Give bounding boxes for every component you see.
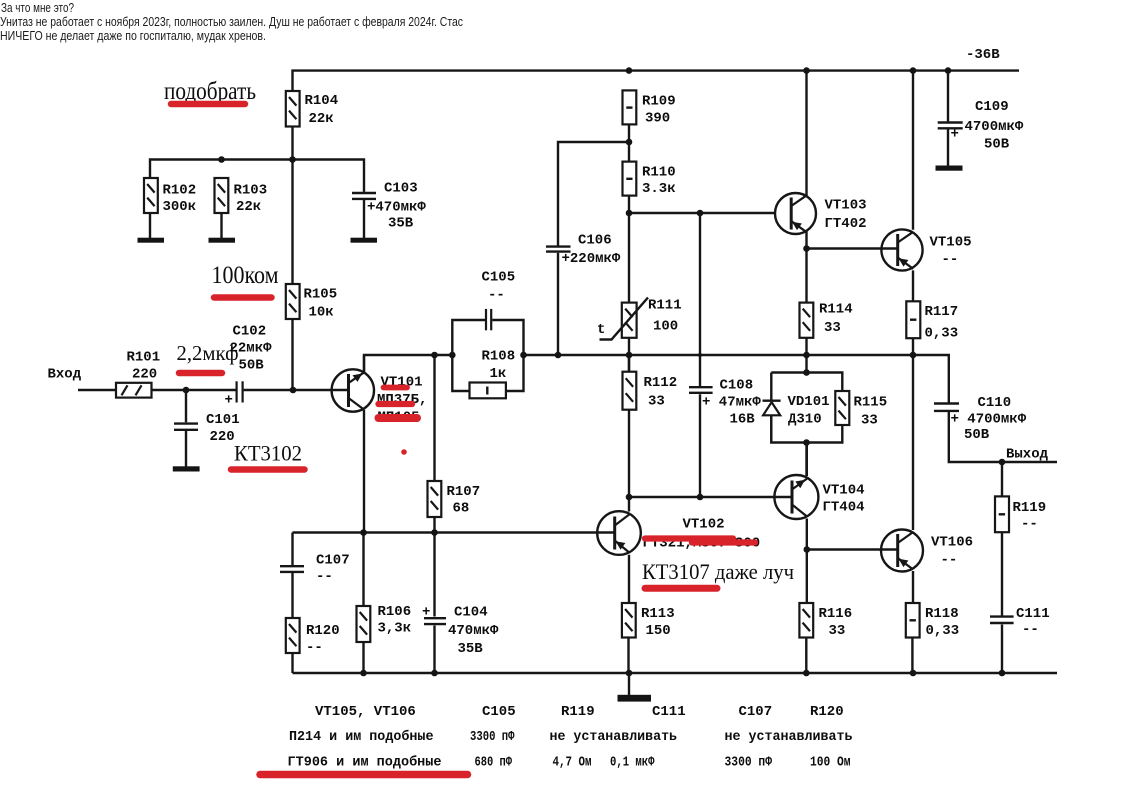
svg-text:Выход: Выход (1006, 447, 1049, 463)
wire C109 to ground (947, 130, 949, 167)
svg-text:100ком: 100ком (212, 262, 279, 289)
wire R119 top (1001, 462, 1003, 496)
wire VT102 base row y532 (293, 531, 615, 533)
svg-text:3300 пФ: 3300 пФ (725, 755, 773, 771)
wire C110 to output row (949, 412, 1057, 462)
svg-text:R111: R111 (648, 298, 682, 314)
svg-text:22к: 22к (236, 199, 261, 215)
svg-text:R102: R102 (163, 183, 197, 199)
resistor R109 (623, 90, 676, 126)
svg-text:R116: R116 (819, 606, 853, 622)
svg-text:R119: R119 (1013, 500, 1047, 516)
svg-text:НИЧЕГО не делает даже по госпи: НИЧЕГО не делает даже по госпиталю, муда… (0, 28, 266, 43)
wire loop bottom to VT104 (805, 443, 807, 476)
svg-text:1к: 1к (490, 366, 507, 382)
resistor R105 (286, 284, 337, 321)
capacitor C108 (689, 378, 761, 428)
transistor VT105 (881, 229, 971, 270)
wire R120 bottom to ground rail (291, 653, 293, 673)
resistor R115 (835, 391, 887, 429)
resistor R120 (286, 618, 340, 656)
wire R119 bottom to C111 (1001, 532, 1003, 616)
svg-text:не устанавливать: не устанавливать (725, 729, 853, 745)
ground R103 (209, 238, 236, 243)
node bias row junctions (218, 156, 225, 163)
node VT104 base row (626, 494, 633, 501)
svg-text:R115: R115 (854, 395, 888, 411)
wire input row y390 (78, 389, 116, 391)
capacitor C107 (280, 553, 350, 586)
svg-text:R105: R105 (304, 287, 338, 303)
capacitor C105 with R108 loop (452, 270, 523, 392)
wire VT104 collector (806, 443, 808, 476)
svg-text:+ 47мкФ: + 47мкФ (702, 395, 761, 411)
svg-text:50В: 50В (964, 427, 990, 443)
svg-text:R113: R113 (641, 606, 675, 622)
resistor R119 (995, 496, 1046, 532)
svg-text:VT104: VT104 (823, 483, 865, 499)
svg-text:+ 4700мкФ: + 4700мкФ (951, 412, 1027, 428)
svg-text:390: 390 (645, 111, 670, 127)
wire VT101 collector up to rail (363, 355, 365, 372)
svg-text:R120: R120 (306, 623, 340, 639)
svg-text:R120: R120 (810, 704, 844, 720)
capacitor C110 (934, 395, 1027, 443)
svg-text:VT105: VT105 (930, 235, 972, 251)
wire R111 bottom to rail (628, 338, 630, 372)
svg-text:22к: 22к (309, 111, 334, 127)
svg-text:КТ3107 даже луч: КТ3107 даже луч (642, 559, 794, 584)
capacitor C106 (546, 233, 621, 268)
svg-text:470мкФ: 470мкФ (448, 623, 499, 639)
resistor R112 (623, 372, 678, 410)
svg-text:За что мне это?: За что мне это? (1, 0, 74, 15)
svg-text:C110: C110 (978, 395, 1012, 411)
wire R116 bottom (805, 638, 807, 674)
svg-text:R108: R108 (482, 349, 516, 365)
svg-text:33: 33 (861, 413, 878, 429)
svg-text:R114: R114 (819, 302, 853, 318)
svg-text:Д310: Д310 (788, 412, 822, 428)
ground main (618, 695, 652, 702)
wire R113 bottom (627, 638, 629, 674)
svg-text:--: -- (1021, 517, 1038, 533)
wire R106 bottom (362, 642, 364, 673)
wire bottom ground rail (293, 672, 1058, 674)
wire bias row y159 R102/R103/C103 (150, 160, 364, 192)
wire R106 top (362, 533, 364, 607)
svg-text:4,7 Ом: 4,7 Ом (553, 755, 592, 771)
svg-text:+: + (422, 605, 430, 621)
svg-text:C105: C105 (482, 704, 516, 720)
resistor R116 (799, 603, 852, 639)
svg-text:R104: R104 (305, 93, 339, 109)
resistor R117 (906, 301, 958, 341)
resistor R106 (357, 604, 412, 642)
svg-text:3300 пФ: 3300 пФ (470, 729, 515, 745)
wire R105 bottom to input node (291, 319, 293, 391)
resistor R110 (623, 162, 676, 197)
resistor R107 (428, 481, 481, 517)
wire VT104 base row y497 (629, 496, 792, 498)
diode VD101 (763, 394, 830, 443)
wire C105 junction column down to C108 (699, 213, 701, 386)
svg-text:C106: C106 (578, 233, 612, 249)
node VT103 base row (626, 210, 633, 217)
wire R110 junction down to R111 (628, 213, 630, 303)
capacitor C102 (225, 324, 273, 409)
svg-text:R118: R118 (925, 606, 959, 622)
svg-text:33: 33 (829, 623, 846, 639)
svg-text:C107: C107 (316, 553, 350, 569)
svg-text:ГТ404: ГТ404 (823, 500, 865, 516)
svg-text:VT103: VT103 (825, 198, 867, 214)
svg-text:150: 150 (646, 623, 671, 639)
wire VT103 collector to top rail (805, 71, 807, 196)
svg-text:ГТ906 и им подобные: ГТ906 и им подобные (288, 755, 442, 771)
svg-text:--: -- (306, 640, 323, 656)
svg-text:0,33: 0,33 (925, 326, 959, 342)
svg-text:C109: C109 (975, 99, 1009, 115)
svg-text:R106: R106 (378, 604, 412, 620)
svg-text:--: -- (1022, 622, 1039, 638)
svg-text:33: 33 (824, 320, 841, 336)
wire top -36V power rail (293, 71, 1020, 91)
wire C106 top branch (558, 142, 629, 246)
wire VT103 base row y213 (629, 196, 775, 213)
transistor VT103 (775, 193, 867, 234)
wire VD101 loop (771, 373, 842, 443)
capacitor C103 (352, 181, 426, 239)
transistor VT106 (881, 530, 973, 572)
capacitor C101 (174, 412, 240, 445)
node VT105 base link (803, 245, 810, 252)
svg-text:C107: C107 (739, 704, 773, 720)
wire R107 top (433, 355, 435, 481)
capacitor C104 (422, 605, 499, 658)
wire VT105 collector to top rail (912, 71, 914, 230)
svg-text:220: 220 (132, 367, 157, 383)
wire C108 bottom to VT104 base row (699, 394, 701, 497)
wire VT101 emitter down to VT102 base row (363, 410, 365, 533)
wire R112 top (628, 355, 630, 372)
wire C111 bottom (1001, 625, 1003, 674)
svg-text:R107: R107 (447, 484, 481, 500)
wire R101 to C102 (152, 389, 236, 391)
wire VT103 emitter to R114 (805, 232, 807, 303)
wire VT106 base row y549 (807, 548, 898, 550)
svg-text:R119: R119 (561, 704, 595, 720)
wire VT106 emitter to R118 (912, 571, 914, 603)
svg-text:C105: C105 (482, 270, 516, 286)
node ground rail junctions (360, 670, 367, 677)
GROUND SYMBOLS (138, 166, 963, 702)
annotation strike VT101 (384, 385, 408, 391)
wire C102 to VT101 base (244, 389, 349, 391)
svg-text:--: -- (941, 553, 958, 569)
ground R102 (138, 238, 165, 243)
svg-text:R117: R117 (925, 304, 959, 320)
svg-text:R109: R109 (642, 94, 676, 110)
annotation long red underline bottom (260, 771, 468, 779)
svg-text:35В: 35В (388, 216, 414, 232)
svg-text:+: + (951, 127, 959, 143)
wire R104 bottom to R105 top (291, 127, 293, 285)
wire VT106 collector up to rail (912, 355, 914, 530)
svg-text:100: 100 (653, 319, 678, 335)
wire R107 bottom to C104 (433, 517, 435, 617)
svg-text:3.3к: 3.3к (642, 181, 676, 197)
wire C101 branch (185, 390, 187, 422)
transistor VT104 (774, 475, 864, 519)
svg-text:--: -- (942, 252, 959, 268)
svg-text:3,3к: 3,3к (378, 621, 412, 637)
svg-text:16В: 16В (730, 412, 756, 428)
ground C109 (936, 166, 963, 171)
node input row (183, 387, 190, 394)
svg-text:0,1 мкФ: 0,1 мкФ (610, 755, 655, 771)
wire ground stub (628, 673, 630, 695)
wire R114 bottom to rail (805, 338, 807, 355)
node VT102 base row (360, 529, 367, 536)
wire R118 bottom (911, 638, 913, 674)
svg-text:--: -- (488, 288, 505, 304)
svg-text:33: 33 (648, 394, 665, 410)
svg-text:35В: 35В (458, 641, 484, 657)
note text top-left (0, 0, 463, 43)
svg-text:VD101: VD101 (788, 394, 830, 410)
node output rail junctions (431, 352, 438, 359)
node VD101 loop taps (803, 369, 810, 376)
svg-text:10к: 10к (309, 305, 334, 321)
svg-text:R110: R110 (642, 165, 676, 181)
svg-text:220: 220 (210, 429, 235, 445)
svg-text:VT106: VT106 (931, 535, 973, 551)
node top rail junctions (626, 67, 633, 74)
wire R117 bottom to rail (912, 338, 914, 355)
wire rail down to VD101 loop (805, 355, 807, 373)
svg-text:C101: C101 (206, 412, 240, 428)
svg-text:R103: R103 (234, 183, 268, 199)
svg-text:C102: C102 (233, 324, 267, 340)
svg-text:+220мкФ: +220мкФ (562, 251, 621, 267)
resistor R113 (622, 603, 675, 639)
svg-text:0,33: 0,33 (926, 623, 960, 639)
svg-text:-36В: -36В (966, 47, 1000, 63)
capacitor C111 (990, 606, 1050, 638)
transistor VT101 (332, 369, 428, 425)
wire C101 to ground (185, 431, 187, 467)
wire C104 bottom to ground rail (433, 626, 435, 674)
resistor R118 (906, 603, 959, 639)
wire VT104 emitter down (806, 519, 808, 604)
wire VT105 emitter to R117 (912, 270, 914, 301)
svg-text:КТ3102: КТ3102 (234, 441, 302, 466)
capacitor C109 (938, 99, 1024, 153)
svg-text:C111: C111 (652, 704, 686, 720)
annotation red dot (401, 449, 407, 455)
wire VT102 emitter to R113 (628, 555, 630, 603)
node VT106 base row (804, 546, 811, 553)
svg-text:П214 и им подобные: П214 и им подобные (289, 729, 434, 745)
svg-text:2,2мкф: 2,2мкф (177, 341, 239, 365)
svg-text:VT102: VT102 (683, 517, 725, 533)
wire C106 bottom to rail (557, 253, 559, 355)
wire C107 to R120 (291, 573, 293, 619)
svg-text:R112: R112 (644, 375, 678, 391)
svg-text:680 пФ: 680 пФ (475, 755, 513, 771)
wire VT103-VT105 base link y248 (807, 247, 898, 249)
resistor R108 (470, 349, 516, 399)
svg-text:+470мкФ: +470мкФ (367, 200, 426, 216)
svg-text:C111: C111 (1016, 606, 1050, 622)
resistor R101 (116, 350, 160, 398)
resistor R114 (800, 302, 853, 338)
wire mid output rail y355 right part (524, 355, 949, 403)
svg-text:4700мкФ: 4700мкФ (965, 119, 1024, 135)
wire VD101 loop left top (770, 373, 772, 401)
svg-text:t: t (597, 322, 605, 338)
notes table bottom (288, 704, 853, 771)
ground C103 (351, 238, 378, 243)
svg-text:+: + (225, 393, 233, 409)
wire C107 branch down (291, 533, 293, 566)
ground C101 (173, 466, 200, 471)
svg-text:50В: 50В (239, 358, 265, 374)
svg-text:100 Ом: 100 Ом (810, 755, 851, 771)
svg-text:68: 68 (453, 501, 470, 517)
svg-text:C108: C108 (720, 378, 754, 394)
svg-text:Унитаз не работает с ноября 20: Унитаз не работает с ноября 2023г, полно… (0, 14, 463, 29)
wire mid output rail y355 left part (364, 355, 452, 372)
svg-text:ГТ402: ГТ402 (825, 216, 867, 232)
svg-text:R101: R101 (127, 350, 161, 366)
wire R109 bottom to R110 top (628, 124, 630, 161)
transistor VT102 (597, 511, 724, 555)
svg-text:50В: 50В (984, 137, 1010, 153)
svg-text:VT105, VT106: VT105, VT106 (315, 704, 416, 720)
svg-text:C103: C103 (384, 181, 418, 197)
node output tap (999, 459, 1006, 466)
svg-text:300к: 300к (163, 199, 197, 215)
resistor R111 thermistor (597, 298, 682, 340)
wire R112 bottom to VT102 collector node (628, 410, 630, 512)
svg-text:C104: C104 (454, 605, 488, 621)
resistor R102 (144, 178, 196, 239)
resistor R104 (286, 91, 338, 127)
node C106 branch (626, 139, 633, 146)
wire C109 from top rail (947, 71, 949, 122)
svg-text:Вход: Вход (48, 367, 82, 383)
svg-text:--: -- (316, 569, 333, 585)
svg-text:не устанавливать: не устанавливать (550, 729, 678, 745)
resistor R103 (215, 178, 268, 239)
